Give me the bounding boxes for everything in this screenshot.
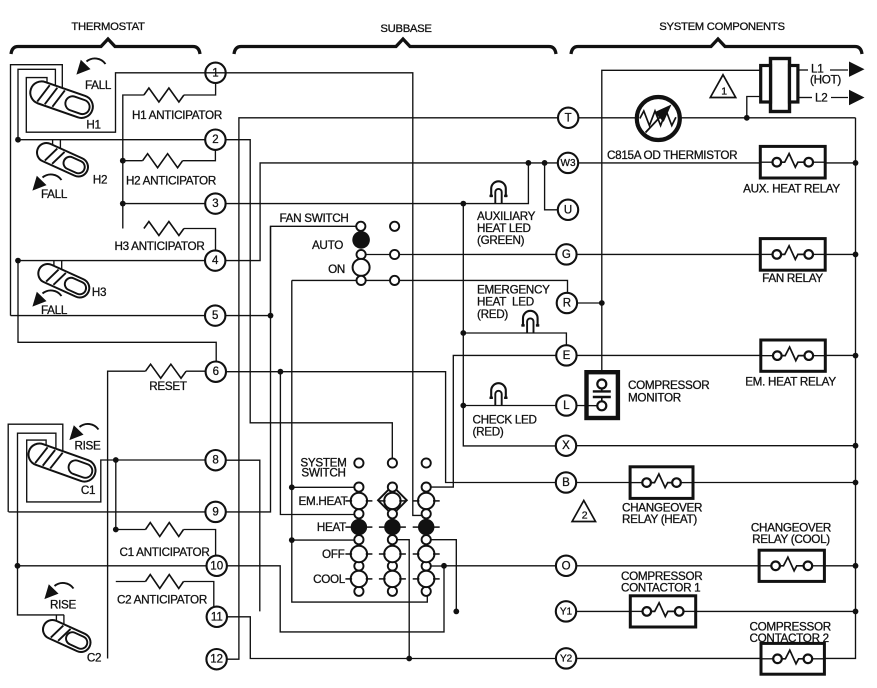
svg-text:H1 ANTICIPATOR: H1 ANTICIPATOR	[132, 109, 222, 122]
fan switch AUTO position (selected)	[352, 231, 370, 249]
svg-text:1: 1	[721, 85, 727, 97]
wire terminal E to em heat relay	[577, 354, 761, 356]
terminal 9	[205, 502, 225, 522]
transformer	[761, 59, 798, 112]
thermistor arrow	[646, 116, 662, 133]
arrow RISE C1	[70, 424, 99, 440]
wire transformer to L1	[798, 69, 808, 71]
junction C1 anticipator / riser	[113, 527, 119, 533]
wire 8-dot down to C1 anticipator	[115, 460, 117, 530]
terminal 2	[205, 130, 225, 150]
terminal 5	[205, 305, 225, 325]
wire C1 anticipator to terminal 10	[184, 530, 216, 556]
warning triangle 2	[572, 501, 595, 522]
wire terminal X to bus	[576, 445, 855, 447]
svg-text:RELAY (COOL): RELAY (COOL)	[752, 533, 830, 546]
junction W3 wire / U riser	[542, 160, 548, 166]
junction X riser / check LED wire	[460, 403, 466, 409]
junction 3-wire / X riser	[460, 201, 466, 207]
wire terminal 5 to fan switch riser	[225, 315, 270, 317]
mercury switch C2	[40, 617, 94, 655]
svg-text:G: G	[562, 249, 571, 261]
junction X riser / emergency LED wire	[460, 330, 466, 336]
svg-text:12: 12	[210, 654, 223, 666]
svg-text:U: U	[564, 204, 572, 216]
wire transformer to L2	[798, 97, 812, 99]
junction bus / X wire	[853, 443, 859, 449]
svg-text:(GREEN): (GREEN)	[477, 234, 525, 247]
svg-text:O: O	[562, 560, 571, 572]
mercury switch C1	[25, 440, 98, 484]
wire terminal 12 riser to T	[227, 118, 558, 659]
svg-text:C2: C2	[87, 652, 101, 665]
svg-text:5: 5	[212, 310, 218, 322]
svg-text:OFF: OFF	[322, 548, 345, 561]
svg-text:SUBBASE: SUBBASE	[380, 23, 432, 35]
arrow FALL H3	[33, 290, 62, 306]
relay COMPRESSOR CONTACTOR 2	[761, 643, 824, 674]
system switch column 3 contact chain	[413, 483, 440, 596]
wire transformer secondary bottom	[747, 97, 760, 118]
wire terminal Y1 to compressor contactor 1	[576, 610, 630, 612]
resistor RESET	[146, 364, 187, 378]
wire W3 node to terminal U	[545, 163, 558, 210]
svg-text:R: R	[563, 298, 571, 310]
wire fan ON row to terminal R	[399, 280, 567, 292]
svg-text:FAN RELAY: FAN RELAY	[762, 272, 823, 285]
wire terminal 4 to W3	[225, 163, 557, 261]
svg-text:SYSTEM COMPONENTS: SYSTEM COMPONENTS	[659, 21, 785, 33]
wire em heat relay to bus	[825, 354, 855, 356]
terminal E	[556, 345, 576, 365]
junction node 18/139	[15, 137, 21, 143]
svg-text:E: E	[563, 350, 571, 362]
system switch diamond around col2 EM.HEAT	[378, 486, 407, 515]
wire L2 lead	[831, 97, 848, 99]
wire H3 contact stub 2	[61, 261, 63, 272]
wire H3 contact stub 1	[53, 261, 55, 269]
system switch column 2 top contact	[388, 458, 397, 467]
wire aux relay to bus	[825, 162, 855, 164]
svg-text:H3 ANTICIPATOR: H3 ANTICIPATOR	[115, 240, 205, 253]
resistor H1 ANTICIPATOR	[144, 88, 184, 102]
svg-text:RELAY (HEAT): RELAY (HEAT)	[622, 513, 697, 526]
svg-text:C1 ANTICIPATOR: C1 ANTICIPATOR	[120, 546, 210, 559]
wire C1 coil outer from 9-wire	[8, 424, 63, 512]
svg-text:COMPRESSOR: COMPRESSOR	[628, 379, 709, 392]
svg-text:EM. HEAT RELAY: EM. HEAT RELAY	[745, 375, 836, 388]
junction W3 wire / 3 riser	[526, 160, 532, 166]
wire terminal 11 to Y2	[227, 617, 556, 659]
junction bracket / col1 contact B	[289, 537, 295, 543]
terminal L	[556, 395, 576, 415]
junction O wire / detour riser	[441, 563, 447, 569]
mercury switch H1	[27, 78, 96, 121]
terminal 3	[205, 193, 225, 213]
wire terminal O to changeover relay cool	[576, 565, 759, 567]
wire terminal1 to H1 coil inner	[26, 73, 225, 132]
LED emergency heat (red)	[521, 311, 539, 333]
wire C1 coil middle down to C2 contacts	[18, 433, 65, 615]
svg-text:(HOT): (HOT)	[810, 74, 841, 87]
wire col3 OFF contact to O wire	[431, 565, 444, 567]
svg-text:W3: W3	[561, 158, 576, 169]
arrow L1	[849, 62, 865, 77]
svg-text:FAN SWITCH: FAN SWITCH	[279, 212, 348, 225]
wire terminal T to thermistor	[579, 117, 636, 119]
wire C1 coil inner to terminal 8	[27, 440, 206, 502]
svg-text:CONTACTOR 1: CONTACTOR 1	[621, 581, 700, 594]
junction node18 / terminal 4 wire	[15, 258, 21, 264]
junction bus / changeover heat	[853, 480, 859, 486]
wire check LED row to terminal L	[463, 405, 556, 407]
wire node18 to terminal 2	[18, 139, 205, 141]
terminal 6	[206, 362, 226, 382]
wire terminal 9 up to fan switch top contact	[226, 226, 356, 512]
wire to terminal E top via emergency LED	[463, 333, 566, 345]
wire terminal 6 to B	[226, 372, 556, 483]
wire RESET to terminal 6	[186, 370, 206, 372]
svg-text:10: 10	[210, 560, 223, 572]
wire terminal2 to H2 anticipator	[183, 150, 216, 161]
junction bus / changeover cool	[853, 563, 859, 569]
svg-text:4: 4	[212, 255, 219, 267]
svg-text:Y2: Y2	[560, 653, 573, 664]
wire terminal 10 detour to O	[227, 566, 556, 632]
terminal 11	[207, 607, 227, 627]
wire W3 to aux heat relay	[578, 162, 760, 164]
wire H3 anticipator to terminal 4	[184, 229, 216, 251]
svg-text:RISE: RISE	[74, 440, 101, 453]
fan contact col1 row1	[390, 222, 399, 231]
mercury switch H3	[35, 261, 92, 301]
wire H1 anticipator to node 3 riser	[123, 95, 144, 229]
junction bus / contactor 1	[853, 609, 859, 615]
warning triangle 1	[710, 75, 735, 98]
wire H1 coil outer to 5-wire	[11, 65, 63, 316]
wire left rail to terminal 5	[11, 315, 206, 317]
svg-text:L2: L2	[815, 92, 827, 105]
svg-text:COOL: COOL	[313, 573, 346, 586]
arrow FALL H1	[77, 58, 106, 74]
right bus	[825, 118, 856, 659]
svg-text:11: 11	[211, 611, 223, 623]
svg-text:(RED): (RED)	[473, 426, 504, 439]
wire C2 anticipator left lead	[116, 581, 146, 583]
terminal 1	[205, 63, 225, 83]
terminal 4	[205, 250, 225, 270]
wire C2 contact stub 1	[55, 615, 57, 624]
wire terminal R to monitor riser	[577, 302, 602, 304]
junction T rail / transformer return	[744, 115, 750, 121]
svg-text:RISE: RISE	[50, 599, 77, 612]
wire fan ON contact to col2	[366, 279, 390, 281]
wire terminal Y2 to compressor contactor 2	[576, 657, 761, 659]
svg-text:B: B	[562, 477, 570, 489]
terminal G	[556, 244, 576, 264]
svg-text:H2 ANTICIPATOR: H2 ANTICIPATOR	[126, 174, 216, 187]
wire terminal 2 to system switch col2 top	[226, 140, 393, 458]
relay CHANGEOVER RELAY (COOL)	[759, 550, 824, 581]
terminal B	[556, 472, 576, 492]
wire fan top contact riser	[270, 226, 272, 315]
svg-text:2: 2	[582, 510, 588, 522]
svg-text:L: L	[563, 400, 570, 412]
svg-text:FALL: FALL	[41, 188, 68, 201]
compressor monitor	[587, 372, 618, 418]
terminal T	[558, 108, 578, 128]
LED check (red)	[490, 383, 508, 405]
wire top rail to compressor monitor	[602, 70, 760, 371]
svg-text:AUX. HEAT RELAY: AUX. HEAT RELAY	[743, 183, 840, 196]
svg-text:EM.HEAT: EM.HEAT	[299, 495, 348, 508]
wire bracket to col1 contact B	[292, 539, 355, 541]
junction anticipator common / H2	[120, 158, 126, 164]
resistor H2 ANTICIPATOR	[143, 154, 183, 168]
svg-text:2: 2	[212, 134, 218, 146]
svg-text:ON: ON	[328, 263, 345, 276]
terminal Y1	[556, 601, 576, 621]
terminal 12	[206, 649, 226, 669]
brace thermostat	[11, 39, 200, 54]
wire fan ON contact to bracket	[292, 279, 357, 281]
wire fan auto contact to col2	[366, 254, 390, 256]
svg-text:8: 8	[212, 455, 218, 467]
thermistor zigzag	[640, 111, 676, 126]
wire col2 heat contact to Y2	[397, 540, 409, 659]
junction monitor riser / terminal R wire	[599, 300, 605, 306]
svg-text:AUTO: AUTO	[312, 239, 343, 252]
terminal X	[556, 436, 576, 456]
wire terminal G to fan relay	[577, 253, 761, 255]
svg-text:RESET: RESET	[149, 380, 187, 393]
wire anticipator common to terminal 3	[123, 203, 205, 205]
wire to terminal 10	[18, 565, 207, 567]
brace system components	[571, 39, 862, 54]
wire node18 down and into terminal 6 top	[18, 261, 216, 362]
wire contactor 1 to bus	[696, 610, 856, 612]
resistor C1 ANTICIPATOR	[146, 523, 184, 537]
wire L1 lead	[830, 69, 848, 71]
wire changeover heat to bus	[693, 482, 856, 484]
wire fan auto row to terminal G	[399, 253, 556, 255]
svg-text:EMERGENCY: EMERGENCY	[477, 283, 550, 296]
wire changeover cool to bus	[824, 565, 855, 567]
wire terminal B to changeover relay heat	[576, 482, 630, 484]
junction bus / em heat relay	[853, 353, 859, 359]
relay COMPRESSOR CONTACTOR 1	[630, 596, 695, 627]
fan contact col1 row3	[390, 276, 399, 285]
resistor C2 ANTICIPATOR	[146, 575, 184, 589]
junction bracket / col1 contact A	[289, 484, 295, 490]
resistor H3 ANTICIPATOR	[144, 222, 184, 236]
terminal 8	[205, 450, 225, 470]
junction terminal 5 / fan-9 riser	[268, 313, 274, 319]
svg-text:9: 9	[212, 506, 218, 518]
wire bracket to col1 contact A	[292, 486, 355, 488]
svg-text:6: 6	[213, 366, 219, 378]
mercury switch H2	[34, 140, 91, 180]
svg-text:C815A OD THERMISTOR: C815A OD THERMISTOR	[607, 149, 737, 162]
wire fan relay to bus	[825, 253, 855, 255]
wire terminal L to compressor monitor	[577, 405, 598, 407]
brace subbase	[234, 39, 556, 54]
junction Y2 wire / switch col2 riser	[406, 656, 412, 662]
terminal W3	[558, 153, 578, 173]
relay FAN RELAY	[760, 239, 825, 271]
relay AUX. HEAT RELAY	[760, 146, 825, 178]
junction terminal 6 wire / switch riser	[278, 369, 284, 375]
junction bus / fan relay	[853, 252, 859, 258]
svg-text:HEAT: HEAT	[317, 521, 346, 534]
terminal O	[556, 556, 576, 576]
svg-text:Y1: Y1	[560, 606, 573, 617]
svg-text:HEAT LED: HEAT LED	[477, 296, 534, 309]
relay EM. HEAT RELAY	[761, 340, 826, 371]
junction bus / aux heat relay	[853, 160, 859, 166]
wire C2 contact stub 2	[63, 615, 65, 627]
system switch column 2 contact chain	[379, 483, 406, 596]
svg-text:C2 ANTICIPATOR: C2 ANTICIPATOR	[117, 593, 207, 606]
terminal U	[558, 200, 578, 220]
arrow FALL H2	[33, 174, 62, 190]
wire thermistor to right bus	[681, 117, 856, 119]
svg-text:C1: C1	[81, 484, 95, 497]
wire terminal1 to H1 anticipator	[184, 83, 216, 95]
fan switch ON position	[353, 259, 370, 276]
fan contact col1 row2	[390, 250, 399, 259]
svg-text:T: T	[565, 112, 572, 124]
terminal R	[557, 293, 577, 313]
svg-text:3: 3	[212, 198, 218, 210]
junction Y1 wire / col3 riser	[453, 609, 459, 615]
svg-text:H3: H3	[92, 286, 106, 299]
wire RESET to terminal 12 riser	[108, 371, 146, 658]
system switch column 3 top contact	[422, 458, 431, 467]
wire C2 anticipator to terminal 11	[184, 582, 214, 607]
wire 3-net riser down to terminal X	[463, 204, 556, 446]
system switch column 1 top contact	[354, 458, 363, 467]
wire col3 heat contact to Y1	[431, 540, 457, 612]
thermistor C815A circle	[637, 97, 680, 140]
wire C1 coil to terminal 9	[9, 511, 206, 513]
junction C2 feed / terminal 10 wire	[15, 563, 21, 569]
junction terminal 8 wire / C1 anticipator riser	[113, 457, 119, 463]
wire system switch bracket col1/col3	[292, 280, 428, 602]
svg-text:(RED): (RED)	[477, 308, 508, 321]
terminal 10	[207, 556, 227, 576]
wire H2 anticipator to anticipator common	[123, 160, 143, 162]
junction anticipator common / terminal 3 wire	[120, 201, 126, 207]
svg-text:X: X	[562, 440, 570, 452]
wire C1 anticipator left lead	[116, 529, 146, 531]
svg-text:SWITCH: SWITCH	[301, 466, 345, 479]
LED auxiliary heat (green)	[490, 181, 508, 203]
svg-text:H2: H2	[93, 174, 107, 187]
wire terminal 8 to Y1 row	[226, 460, 260, 611]
svg-text:H1: H1	[86, 119, 100, 132]
svg-text:THERMOSTAT: THERMOSTAT	[71, 21, 145, 33]
wire terminal 1 to system switch col3 contact	[226, 73, 422, 516]
arrow L2	[849, 90, 865, 105]
wire node18 to terminal 4	[18, 260, 205, 262]
svg-text:FALL: FALL	[85, 79, 112, 92]
relay CHANGEOVER RELAY (HEAT)	[630, 467, 693, 499]
wire terminal 3 to W3 node with LED tap	[226, 163, 529, 204]
terminal Y2	[556, 648, 576, 668]
wire H1 coil middle from node18	[18, 69, 55, 139]
system switch column 1 contact chain	[345, 483, 372, 596]
arrow RISE C2	[45, 583, 74, 599]
wire col3 contact to terminal E	[431, 355, 556, 487]
wire 6-riser to system switch col1 heat-top contact	[280, 372, 354, 515]
wire H2 contact stub 2	[59, 140, 61, 151]
wire H2 contact stub 1	[52, 140, 54, 148]
svg-text:MONITOR: MONITOR	[628, 392, 681, 405]
